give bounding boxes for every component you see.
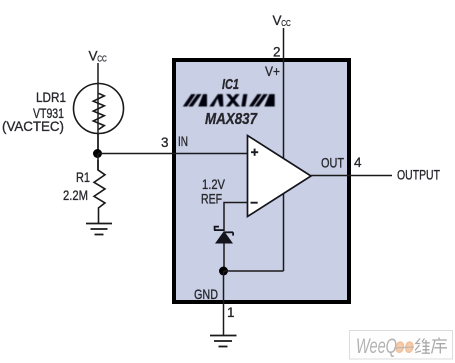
wire gnd node to pin 1: [223, 271, 225, 336]
op-amp non-inverting input marker +: [251, 149, 258, 156]
zener diode 1.2V reference: [214, 227, 233, 236]
watermark hanzi wei: [415, 339, 430, 354]
svg-text:(VACTEC): (VACTEC): [2, 119, 64, 134]
svg-text:2.2M: 2.2M: [63, 188, 88, 203]
op-amp inverting input marker -: [251, 202, 258, 204]
wire Vcc to LDR1: [97, 63, 99, 85]
ground under pin 1: [210, 336, 237, 347]
svg-text:MAX837: MAX837: [205, 111, 258, 128]
svg-text:1: 1: [227, 305, 235, 320]
wire through LDR1 to node: [97, 84, 99, 153]
svg-text:REF: REF: [201, 192, 222, 207]
watermark hanzi ku: [432, 338, 447, 354]
svg-text:2: 2: [273, 45, 281, 60]
watermark WeeQoo weiku box: [350, 331, 453, 360]
node junction dot gnd net: [219, 267, 228, 276]
photoresistor LDR1 VT931: [74, 84, 124, 134]
svg-text:OUT: OUT: [321, 156, 344, 171]
LDR1 resistor zigzag: [93, 93, 104, 129]
svg-text:V+: V+: [265, 64, 280, 79]
wire zener anode to gnd node: [223, 243, 225, 271]
svg-text:IN: IN: [178, 134, 188, 149]
wire OUT pin 4 to OUTPUT: [311, 175, 392, 177]
svg-text:WeeQ: WeeQ: [356, 335, 397, 358]
svg-text:4: 4: [354, 155, 362, 170]
svg-text:V: V: [273, 13, 282, 28]
node junction dot: [93, 149, 102, 158]
IC1 package box MAX837: [174, 60, 349, 302]
wire LDR1 to node: [97, 133, 99, 153]
svg-text:3: 3: [161, 135, 169, 150]
svg-text:R1: R1: [76, 170, 90, 185]
wire inverting input to zener: [224, 203, 248, 232]
op-amp U1 comparator: [248, 136, 312, 217]
svg-text:CC: CC: [97, 54, 107, 64]
wire Vcc to pin 2: [283, 28, 285, 62]
ground under R1: [86, 224, 112, 235]
MAXIM logo: [183, 94, 275, 106]
wire node to R1: [97, 154, 99, 170]
svg-text:V: V: [89, 49, 98, 64]
svg-text:GND: GND: [194, 286, 218, 302]
svg-text:LDR1: LDR1: [36, 90, 66, 105]
svg-text:OUTPUT: OUTPUT: [397, 168, 440, 183]
wire gnd node to V+ rail: [224, 270, 284, 272]
wire node to IN pin 3: [98, 153, 248, 155]
wire V+ rail down to gnd net: [283, 62, 285, 271]
resistor R1 2.2M: [94, 160, 105, 223]
svg-text:oo: oo: [395, 335, 414, 358]
svg-text:IC1: IC1: [222, 77, 239, 93]
svg-text:CC: CC: [281, 18, 291, 28]
svg-text:1.2V: 1.2V: [202, 177, 225, 192]
